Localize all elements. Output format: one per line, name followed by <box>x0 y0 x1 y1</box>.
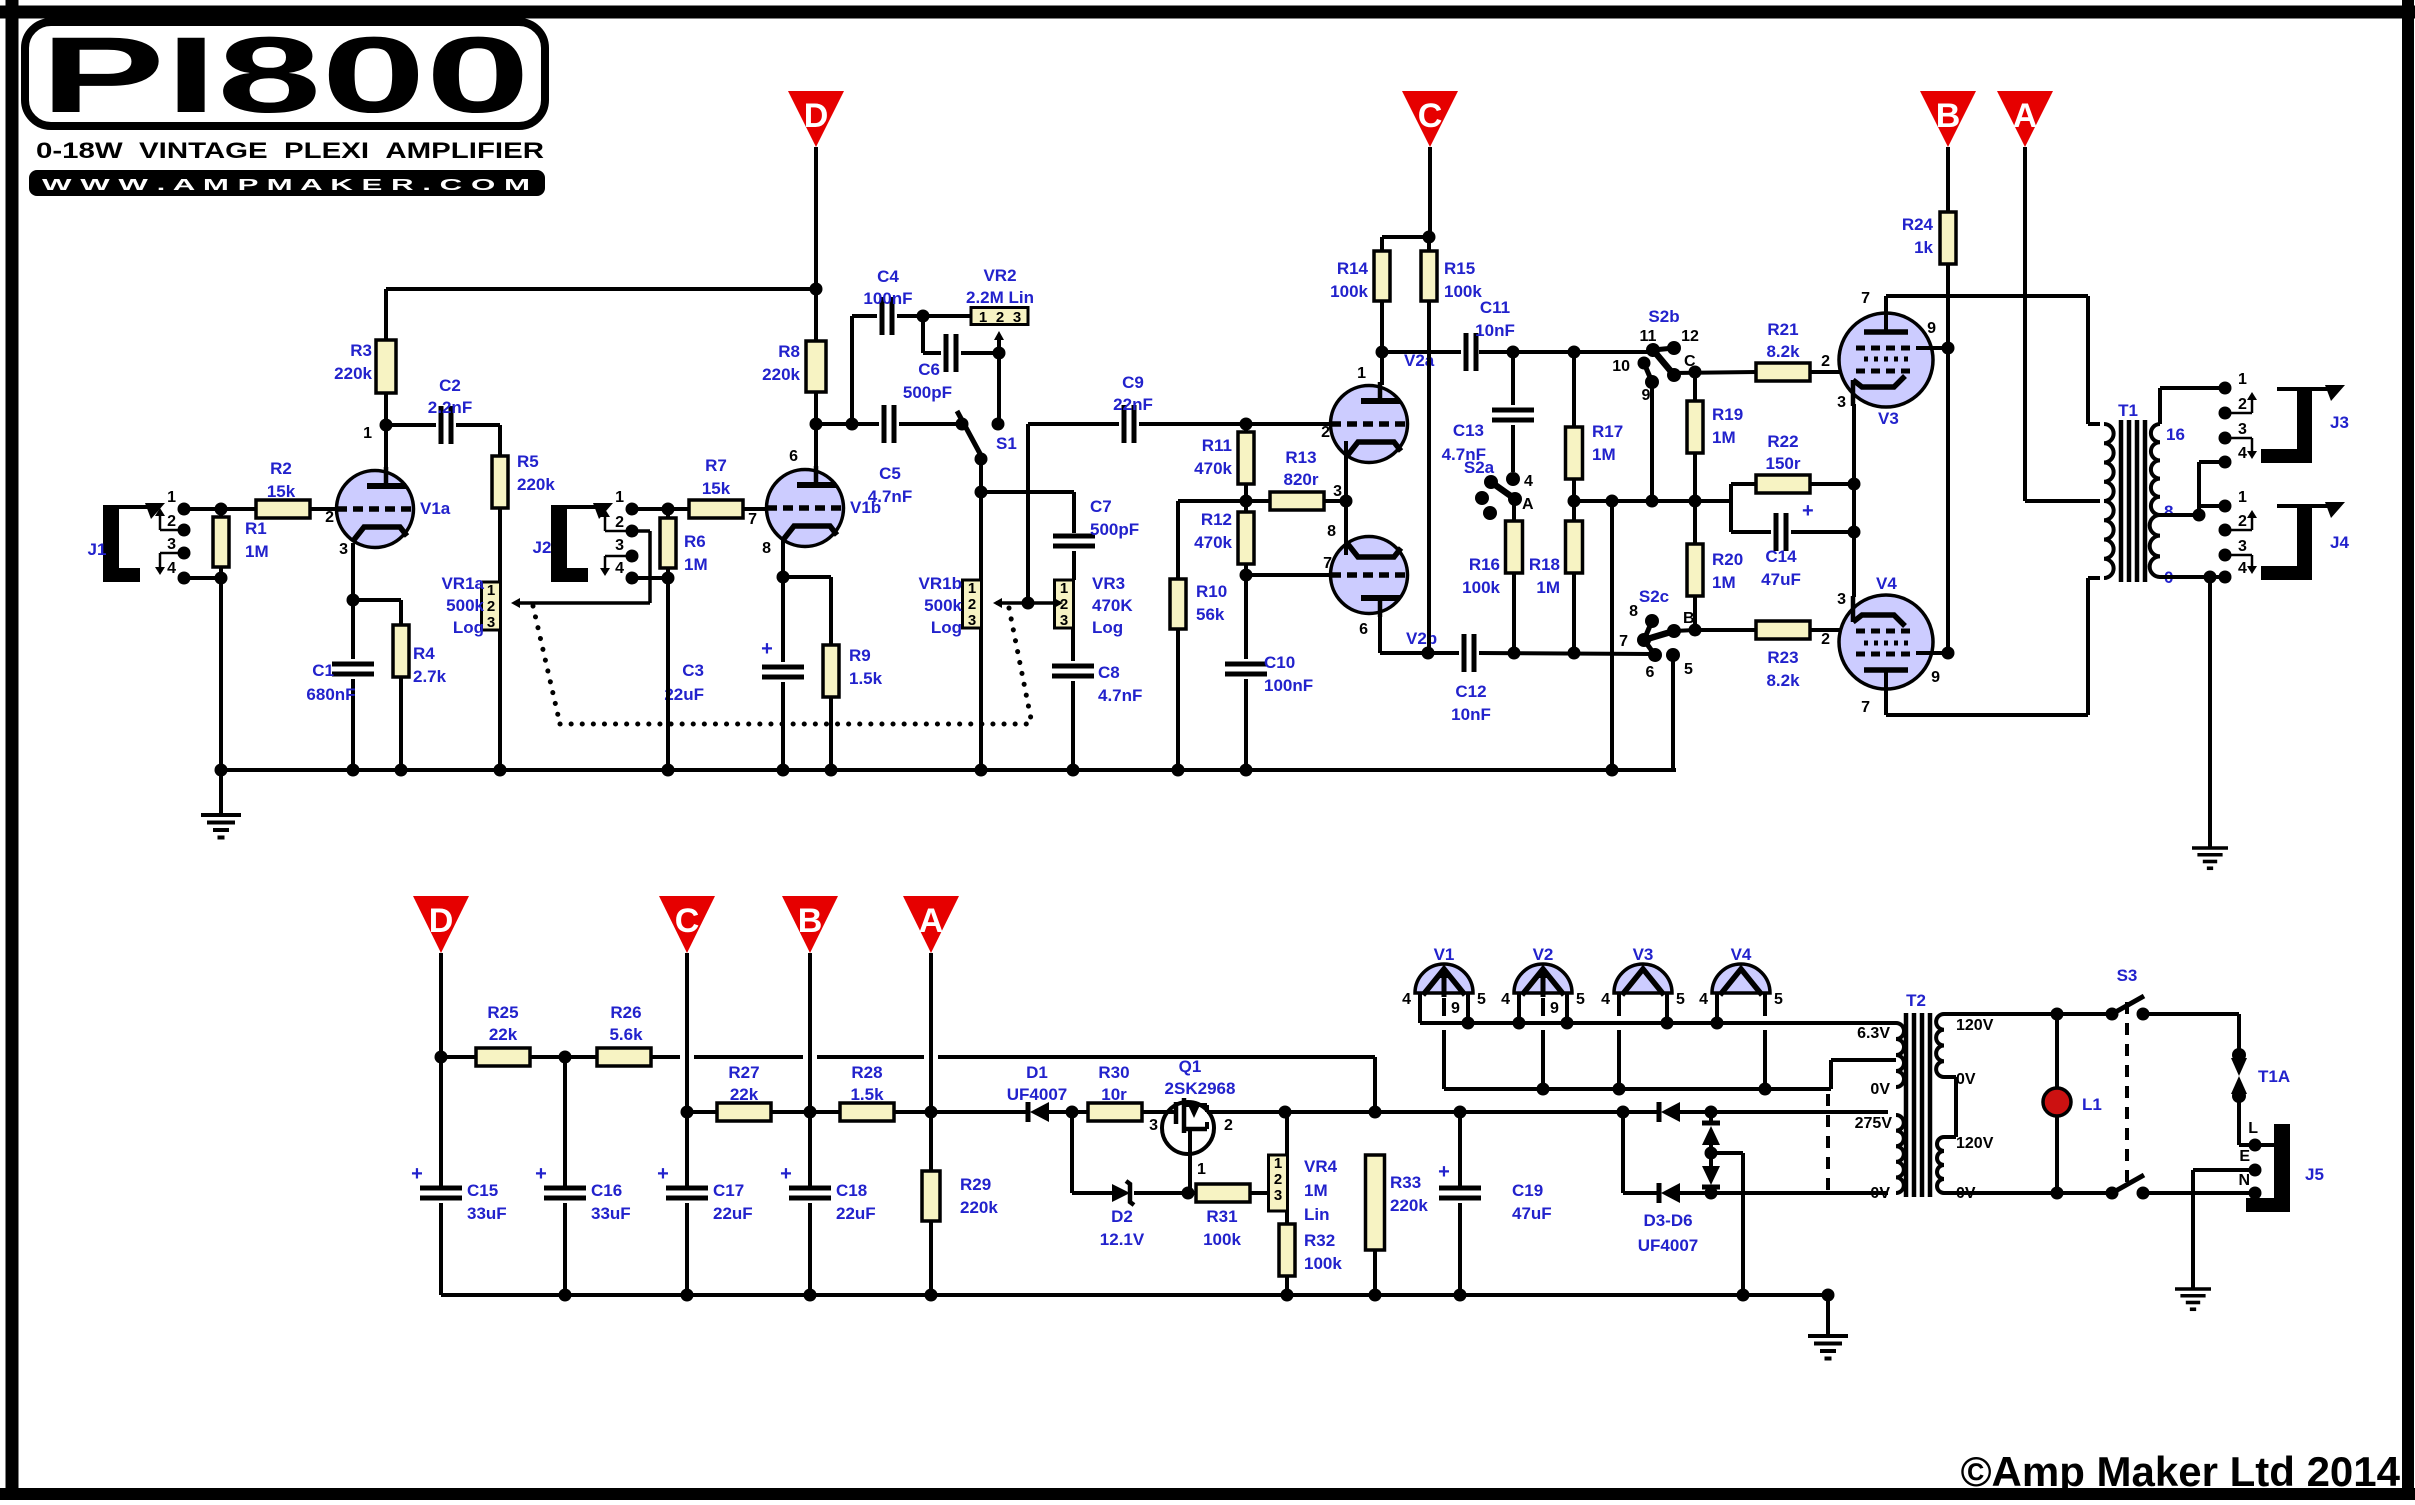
svg-text:R31: R31 <box>1206 1207 1237 1226</box>
svg-text:C8: C8 <box>1098 663 1120 682</box>
svg-text:C5: C5 <box>879 464 901 483</box>
svg-text:R27: R27 <box>728 1063 759 1082</box>
svg-text:56k: 56k <box>1196 605 1225 624</box>
svg-text:R16: R16 <box>1469 555 1500 574</box>
svg-text:500pF: 500pF <box>1090 520 1139 539</box>
svg-text:3: 3 <box>615 537 624 554</box>
svg-text:16: 16 <box>2166 425 2185 444</box>
svg-text:T1A: T1A <box>2258 1067 2290 1086</box>
svg-text:V4: V4 <box>1876 574 1897 593</box>
svg-text:47uF: 47uF <box>1761 570 1801 589</box>
svg-text:V2: V2 <box>1533 945 1554 964</box>
svg-text:1: 1 <box>1197 1161 1206 1178</box>
svg-text:R29: R29 <box>960 1175 991 1194</box>
svg-text:1M: 1M <box>1304 1181 1328 1200</box>
svg-text:4.7nF: 4.7nF <box>1098 686 1142 705</box>
svg-text:8.2k: 8.2k <box>1766 342 1800 361</box>
svg-text:V2b: V2b <box>1406 629 1437 648</box>
svg-text:680nF: 680nF <box>306 685 355 704</box>
svg-text:470K: 470K <box>1092 596 1133 615</box>
svg-text:V1a: V1a <box>420 499 451 518</box>
svg-text:+: + <box>1802 500 1814 522</box>
svg-text:R33: R33 <box>1390 1173 1421 1192</box>
svg-text:L: L <box>2248 1120 2258 1137</box>
svg-text:0V: 0V <box>1956 1071 1976 1088</box>
svg-text:11: 11 <box>1640 328 1657 345</box>
svg-text:V3: V3 <box>1633 945 1654 964</box>
svg-text:4: 4 <box>2238 560 2247 577</box>
svg-text:V3: V3 <box>1878 409 1899 428</box>
svg-text:R7: R7 <box>705 456 727 475</box>
svg-text:12: 12 <box>1681 328 1699 345</box>
svg-text:+: + <box>1438 1161 1450 1183</box>
svg-text:C: C <box>675 902 700 940</box>
svg-text:1: 1 <box>979 309 987 326</box>
svg-text:+: + <box>535 1163 547 1185</box>
svg-text:500pF: 500pF <box>903 383 952 402</box>
svg-text:UF4007: UF4007 <box>1638 1236 1698 1255</box>
svg-text:1M: 1M <box>1536 578 1560 597</box>
svg-text:3: 3 <box>1274 1187 1282 1204</box>
svg-text:100k: 100k <box>1203 1230 1241 1249</box>
svg-text:D2: D2 <box>1111 1207 1133 1226</box>
svg-text:100nF: 100nF <box>1264 676 1313 695</box>
svg-text:J2: J2 <box>533 538 552 557</box>
svg-text:120V: 120V <box>1956 1135 1994 1152</box>
svg-text:4: 4 <box>1501 991 1510 1008</box>
svg-text:Log: Log <box>1092 618 1123 637</box>
svg-text:R13: R13 <box>1285 448 1316 467</box>
svg-text:6: 6 <box>1646 664 1655 681</box>
svg-text:1: 1 <box>2238 489 2247 506</box>
svg-text:9: 9 <box>1550 1000 1559 1017</box>
svg-text:2: 2 <box>1821 353 1830 370</box>
svg-text:W W W . A M P M A K E R . C O: W W W . A M P M A K E R . C O M <box>42 177 530 194</box>
svg-text:100k: 100k <box>1330 282 1368 301</box>
svg-text:R21: R21 <box>1767 320 1798 339</box>
svg-text:7: 7 <box>1861 699 1870 716</box>
svg-text:C19: C19 <box>1512 1181 1543 1200</box>
svg-text:6.3V: 6.3V <box>1857 1025 1890 1042</box>
svg-text:3: 3 <box>167 536 176 553</box>
svg-text:0V: 0V <box>1870 1081 1890 1098</box>
svg-text:C14: C14 <box>1765 547 1797 566</box>
svg-text:470k: 470k <box>1194 459 1232 478</box>
svg-text:C: C <box>1684 353 1696 370</box>
svg-text:22uF: 22uF <box>713 1204 753 1223</box>
svg-text:2: 2 <box>167 513 176 530</box>
svg-text:3: 3 <box>1333 483 1342 500</box>
svg-text:L1: L1 <box>2082 1095 2102 1114</box>
svg-text:5.6k: 5.6k <box>609 1025 643 1044</box>
svg-text:15k: 15k <box>267 482 296 501</box>
svg-text:R2: R2 <box>270 459 292 478</box>
svg-text:+: + <box>780 1163 792 1185</box>
svg-text:R28: R28 <box>851 1063 882 1082</box>
svg-text:C4: C4 <box>877 267 899 286</box>
svg-text:22uF: 22uF <box>836 1204 876 1223</box>
svg-text:220k: 220k <box>762 365 800 384</box>
svg-text:2.2M Lin: 2.2M Lin <box>966 288 1034 307</box>
svg-text:2: 2 <box>615 514 624 531</box>
svg-text:C10: C10 <box>1264 653 1295 672</box>
svg-text:PI800: PI800 <box>40 14 530 135</box>
svg-text:A: A <box>2013 97 2038 135</box>
svg-text:10: 10 <box>1612 358 1630 375</box>
svg-text:0V: 0V <box>1870 1185 1890 1202</box>
svg-text:E: E <box>2239 1148 2250 1165</box>
svg-text:7: 7 <box>1323 555 1332 572</box>
svg-text:D3-D6: D3-D6 <box>1643 1211 1692 1230</box>
svg-text:220k: 220k <box>960 1198 998 1217</box>
svg-text:UF4007: UF4007 <box>1007 1085 1067 1104</box>
svg-text:500k: 500k <box>924 596 962 615</box>
svg-text:R1: R1 <box>245 519 267 538</box>
svg-text:10nF: 10nF <box>1451 705 1491 724</box>
svg-text:4: 4 <box>1524 473 1533 490</box>
svg-text:47uF: 47uF <box>1512 1204 1552 1223</box>
svg-text:6: 6 <box>789 448 798 465</box>
svg-text:220k: 220k <box>334 364 372 383</box>
svg-text:Lin: Lin <box>1304 1205 1330 1224</box>
svg-text:R9: R9 <box>849 646 871 665</box>
svg-text:275V: 275V <box>1855 1115 1893 1132</box>
svg-text:+: + <box>411 1163 423 1185</box>
svg-text:R5: R5 <box>517 452 539 471</box>
svg-text:C: C <box>1418 97 1443 135</box>
svg-text:R3: R3 <box>350 341 372 360</box>
svg-text:1: 1 <box>487 582 495 599</box>
svg-text:2SK2968: 2SK2968 <box>1165 1079 1236 1098</box>
svg-text:S1: S1 <box>996 434 1017 453</box>
svg-text:2: 2 <box>2238 396 2247 413</box>
svg-text:1: 1 <box>363 425 372 442</box>
svg-text:R4: R4 <box>413 644 435 663</box>
svg-text:4: 4 <box>167 560 176 577</box>
svg-text:R23: R23 <box>1767 648 1798 667</box>
svg-text:470k: 470k <box>1194 533 1232 552</box>
svg-text:5: 5 <box>1684 661 1693 678</box>
svg-text:2: 2 <box>1274 1171 1282 1188</box>
svg-text:R12: R12 <box>1201 510 1232 529</box>
svg-text:9: 9 <box>1642 387 1651 404</box>
svg-text:R20: R20 <box>1712 550 1743 569</box>
svg-text:2: 2 <box>1224 1117 1233 1134</box>
svg-text:S2c: S2c <box>1639 587 1669 606</box>
svg-text:1: 1 <box>1274 1155 1282 1172</box>
svg-text:B: B <box>1936 97 1961 135</box>
svg-text:8: 8 <box>1327 523 1336 540</box>
svg-text:0-18W VINTAGE PLEXI AMPLIFI: 0-18W VINTAGE PLEXI AMPLIFIER <box>36 138 544 163</box>
svg-text:C13: C13 <box>1453 421 1484 440</box>
svg-text:C16: C16 <box>591 1181 622 1200</box>
svg-text:33uF: 33uF <box>467 1204 507 1223</box>
svg-text:5: 5 <box>1477 991 1486 1008</box>
svg-text:22uF: 22uF <box>664 685 704 704</box>
svg-text:VR4: VR4 <box>1304 1157 1338 1176</box>
svg-text:C9: C9 <box>1122 373 1144 392</box>
svg-text:©Amp Maker Ltd 2014: ©Amp Maker Ltd 2014 <box>1961 1448 2401 1495</box>
svg-text:9: 9 <box>1927 320 1936 337</box>
svg-text:V4: V4 <box>1731 945 1752 964</box>
svg-text:9: 9 <box>1931 669 1940 686</box>
svg-text:1: 1 <box>167 489 176 506</box>
svg-text:2: 2 <box>1821 631 1830 648</box>
svg-text:A: A <box>1522 496 1534 513</box>
svg-text:2: 2 <box>996 309 1004 326</box>
svg-text:100nF: 100nF <box>863 289 912 308</box>
svg-text:3: 3 <box>1837 591 1846 608</box>
svg-text:5: 5 <box>1676 991 1685 1008</box>
svg-text:3: 3 <box>1013 309 1021 326</box>
svg-text:A: A <box>919 902 944 940</box>
svg-text:J4: J4 <box>2330 533 2349 552</box>
svg-text:B: B <box>798 902 823 940</box>
svg-text:22k: 22k <box>489 1025 518 1044</box>
svg-text:Log: Log <box>453 618 484 637</box>
svg-text:22nF: 22nF <box>1113 395 1153 414</box>
svg-text:22k: 22k <box>730 1085 759 1104</box>
svg-text:C3: C3 <box>682 661 704 680</box>
svg-text:3: 3 <box>2238 421 2247 438</box>
svg-text:R8: R8 <box>778 342 800 361</box>
svg-text:C18: C18 <box>836 1181 867 1200</box>
svg-text:15k: 15k <box>702 479 731 498</box>
svg-text:5: 5 <box>1774 991 1783 1008</box>
svg-text:4: 4 <box>1699 991 1708 1008</box>
svg-text:J1: J1 <box>88 540 107 559</box>
svg-text:J3: J3 <box>2330 413 2349 432</box>
svg-text:3: 3 <box>2238 538 2247 555</box>
svg-text:12.1V: 12.1V <box>1100 1230 1145 1249</box>
svg-text:R30: R30 <box>1098 1063 1129 1082</box>
svg-text:2: 2 <box>487 598 495 615</box>
svg-text:1M: 1M <box>1712 428 1736 447</box>
svg-text:3: 3 <box>1837 394 1846 411</box>
svg-text:120V: 120V <box>1956 1017 1994 1034</box>
svg-text:2: 2 <box>1060 596 1068 613</box>
svg-text:500k: 500k <box>446 596 484 615</box>
svg-text:T1: T1 <box>2118 401 2138 420</box>
svg-text:4: 4 <box>2238 445 2247 462</box>
svg-text:J5: J5 <box>2305 1165 2324 1184</box>
svg-text:R26: R26 <box>610 1003 641 1022</box>
svg-text:R24: R24 <box>1902 215 1934 234</box>
svg-text:VR3: VR3 <box>1092 574 1125 593</box>
svg-text:R11: R11 <box>1202 436 1232 455</box>
svg-text:2: 2 <box>968 596 976 613</box>
svg-text:1M: 1M <box>684 555 708 574</box>
svg-text:V1: V1 <box>1434 945 1455 964</box>
svg-text:S2b: S2b <box>1648 307 1679 326</box>
svg-text:2: 2 <box>2238 513 2247 530</box>
svg-text:+: + <box>761 638 773 660</box>
svg-text:S2a: S2a <box>1464 458 1495 477</box>
svg-text:220k: 220k <box>1390 1196 1428 1215</box>
svg-text:D: D <box>429 902 454 940</box>
svg-text:7: 7 <box>748 511 757 528</box>
svg-text:1M: 1M <box>1592 445 1616 464</box>
svg-text:C11: C11 <box>1480 298 1510 317</box>
svg-text:1: 1 <box>968 580 976 597</box>
svg-text:2: 2 <box>325 509 334 526</box>
svg-text:R10: R10 <box>1196 582 1227 601</box>
svg-text:8: 8 <box>762 540 771 557</box>
svg-text:4: 4 <box>1601 991 1610 1008</box>
svg-text:C1: C1 <box>312 661 334 680</box>
svg-text:R22: R22 <box>1767 432 1798 451</box>
svg-text:8: 8 <box>1629 603 1638 620</box>
svg-text:10nF: 10nF <box>1475 321 1515 340</box>
svg-text:C2: C2 <box>439 376 461 395</box>
svg-text:1.5k: 1.5k <box>849 669 883 688</box>
svg-text:1: 1 <box>615 489 624 506</box>
svg-text:D1: D1 <box>1026 1063 1048 1082</box>
svg-text:1M: 1M <box>245 542 269 561</box>
svg-text:3: 3 <box>1060 612 1068 629</box>
svg-text:4.7nF: 4.7nF <box>868 487 912 506</box>
svg-text:B: B <box>1683 610 1695 627</box>
svg-text:4: 4 <box>1402 991 1411 1008</box>
svg-text:R25: R25 <box>487 1003 518 1022</box>
svg-text:10r: 10r <box>1101 1085 1127 1104</box>
svg-text:C17: C17 <box>713 1181 744 1200</box>
svg-text:C6: C6 <box>918 360 940 379</box>
svg-text:1: 1 <box>2238 371 2247 388</box>
svg-text:1: 1 <box>1357 365 1366 382</box>
svg-text:3: 3 <box>968 612 976 629</box>
svg-text:2.7k: 2.7k <box>413 667 447 686</box>
svg-text:5: 5 <box>1576 991 1585 1008</box>
svg-text:Log: Log <box>931 618 962 637</box>
svg-text:7: 7 <box>1861 290 1870 307</box>
svg-text:T2: T2 <box>1906 991 1926 1010</box>
svg-text:1M: 1M <box>1712 573 1736 592</box>
svg-text:C15: C15 <box>467 1181 498 1200</box>
svg-text:R32: R32 <box>1304 1231 1335 1250</box>
svg-text:C12: C12 <box>1455 682 1486 701</box>
svg-text:33uF: 33uF <box>591 1204 631 1223</box>
svg-text:D: D <box>804 97 829 135</box>
svg-text:N: N <box>2238 1172 2250 1189</box>
svg-text:8.2k: 8.2k <box>1766 671 1800 690</box>
svg-text:3: 3 <box>487 614 495 631</box>
svg-text:100k: 100k <box>1462 578 1500 597</box>
svg-text:+: + <box>657 1163 669 1185</box>
svg-text:R19: R19 <box>1712 405 1743 424</box>
svg-text:6: 6 <box>1359 621 1368 638</box>
svg-text:150r: 150r <box>1766 454 1801 473</box>
svg-text:2.2nF: 2.2nF <box>428 398 472 417</box>
svg-text:VR1b: VR1b <box>919 574 962 593</box>
svg-text:100k: 100k <box>1444 282 1482 301</box>
svg-text:1.5k: 1.5k <box>850 1085 884 1104</box>
svg-text:3: 3 <box>339 541 348 558</box>
svg-text:1k: 1k <box>1914 238 1933 257</box>
svg-text:Q1: Q1 <box>1179 1057 1202 1076</box>
svg-text:3: 3 <box>1149 1117 1158 1134</box>
svg-text:9: 9 <box>1451 1000 1460 1017</box>
svg-text:220k: 220k <box>517 475 555 494</box>
svg-text:8: 8 <box>2164 502 2173 521</box>
svg-text:7: 7 <box>1619 633 1628 650</box>
svg-text:R6: R6 <box>684 532 706 551</box>
svg-text:100k: 100k <box>1304 1254 1342 1273</box>
svg-text:R14: R14 <box>1337 259 1369 278</box>
svg-text:C7: C7 <box>1090 497 1112 516</box>
svg-text:4: 4 <box>615 560 624 577</box>
svg-text:R17: R17 <box>1592 422 1623 441</box>
svg-text:R18: R18 <box>1529 555 1560 574</box>
svg-text:2: 2 <box>1321 424 1330 441</box>
svg-text:VR2: VR2 <box>983 266 1016 285</box>
svg-text:VR1a: VR1a <box>441 574 484 593</box>
svg-text:820r: 820r <box>1284 470 1319 489</box>
svg-text:S3: S3 <box>2117 966 2138 985</box>
svg-text:1: 1 <box>1060 580 1068 597</box>
svg-text:R15: R15 <box>1444 259 1475 278</box>
